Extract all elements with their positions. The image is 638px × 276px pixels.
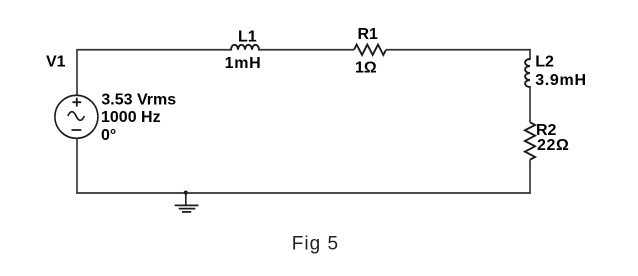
resistor R2 <box>525 122 535 159</box>
junction dot at ground tap <box>184 191 188 195</box>
wire right vertical stub corner to L2 <box>529 49 531 59</box>
wire top segment from corner to L1 <box>76 49 231 51</box>
wire right vertical from L2 to R2 <box>529 87 531 122</box>
wire top segment from L1 to R1 <box>259 49 354 51</box>
L2 reference label <box>535 53 554 70</box>
V1 plus polarity mark <box>72 98 81 107</box>
R2 value label 22Ω <box>537 137 569 154</box>
wire V1 negative lead down to bottom wire <box>76 139 78 194</box>
wire top segment from R1 to top-right corner <box>386 49 531 51</box>
R1 reference label <box>358 26 379 43</box>
svg-text:R1: R1 <box>358 26 379 43</box>
inductor L1 <box>231 45 259 50</box>
ground <box>175 193 199 212</box>
R1 value label 1Ω <box>355 60 377 77</box>
V1 value label 1000 Hz <box>101 109 161 126</box>
svg-text:3.9mH: 3.9mH <box>535 72 587 89</box>
svg-text:3.53 Vrms: 3.53 Vrms <box>101 91 176 108</box>
V1 value label 3.53 Vrms <box>101 91 176 108</box>
inductor L2 <box>525 59 530 87</box>
figure caption Fig 5 <box>292 233 339 254</box>
V1 value label 0 degrees <box>101 127 116 144</box>
V1 minus polarity mark <box>72 129 82 131</box>
ac voltage source V1 circle <box>55 95 98 138</box>
svg-text:V1: V1 <box>46 53 66 70</box>
svg-text:L1: L1 <box>238 28 257 45</box>
R2 reference label <box>536 122 557 139</box>
resistor R1 <box>354 45 386 55</box>
V1 sine symbol <box>68 112 85 121</box>
svg-text:1mH: 1mH <box>225 55 262 72</box>
svg-text:Fig 5: Fig 5 <box>292 233 339 254</box>
svg-text:1000 Hz: 1000 Hz <box>101 109 161 126</box>
V1 reference label <box>46 53 66 70</box>
L2 value label 3.9mH <box>535 72 587 89</box>
L1 value label 1mH <box>225 55 262 72</box>
wire right vertical from R2 to bottom-right corner <box>529 160 531 194</box>
wire top-left vertical (V1 positive lead up to corner) <box>76 50 78 96</box>
L1 reference label <box>238 28 257 45</box>
wire bottom horizontal <box>76 192 530 194</box>
svg-text:L2: L2 <box>535 53 554 70</box>
svg-text:22Ω: 22Ω <box>537 137 569 154</box>
svg-text:0°: 0° <box>101 127 116 144</box>
svg-text:1Ω: 1Ω <box>355 60 377 77</box>
